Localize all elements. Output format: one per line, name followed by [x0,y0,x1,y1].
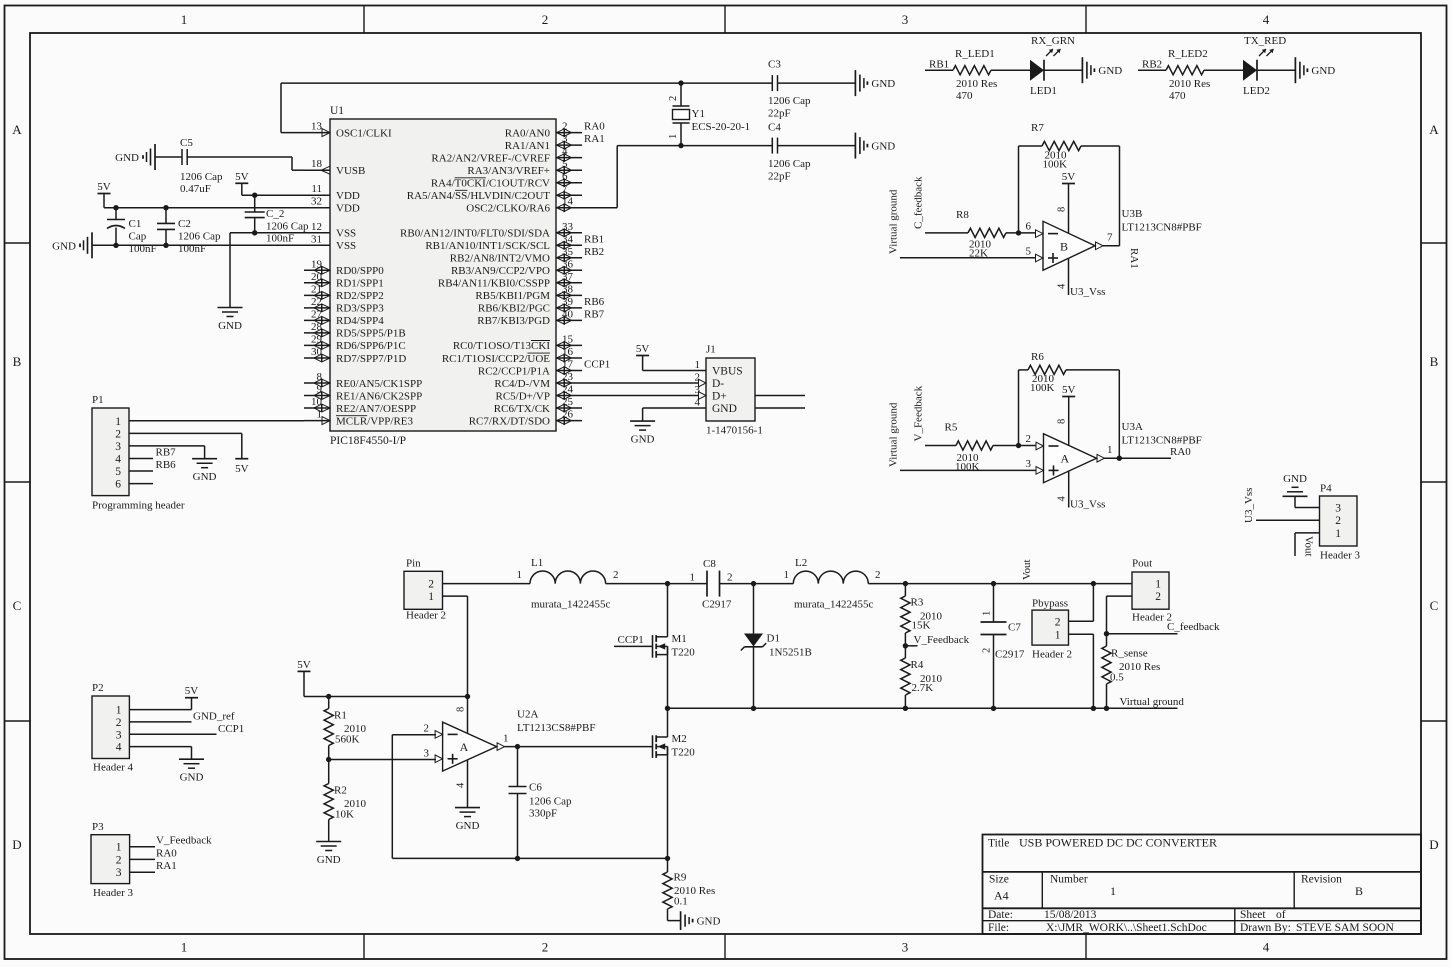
U1 pin 18 VUSB [304,169,330,171]
capacitor C5 [181,149,183,165]
connector P2 Header 4 [92,696,129,759]
svg-text:RB2/AN8/INT2/VMO: RB2/AN8/INT2/VMO [450,253,550,265]
svg-text:2010 Res: 2010 Res [956,78,997,90]
resistor R4 [904,646,906,658]
resistor R9 [667,858,669,872]
U1 pin 31 VSS [304,244,330,246]
wire Pbypass pin 1 to bottom rail [1069,633,1094,635]
svg-text:RD1/SPP1: RD1/SPP1 [336,278,384,290]
wire P1 pin 6 [129,483,153,485]
U3B pin 8 power 5V [1062,183,1075,185]
U1 pin 9 RE1/AN6/CK2SPP [304,395,330,397]
svg-text:2: 2 [428,578,434,590]
U1 pin 10 RE2/AN7/OESPP [304,407,330,409]
wire LED1 to ground [1044,69,1082,71]
svg-text:1: 1 [668,134,679,139]
resistor R_sense [1106,634,1108,646]
op-amp U2A LT1213CS8#PBF [443,722,497,771]
svg-text:3: 3 [424,748,430,760]
U1 pin 24 RC5/D+/VP [556,395,582,397]
svg-text:GND: GND [115,152,139,164]
svg-text:RD6/SPP6/P1C: RD6/SPP6/P1C [336,340,406,352]
svg-text:A: A [1061,452,1070,466]
connector P1 programming header [92,408,129,496]
wire P3 pin 1 [130,846,155,848]
wire Pbypass pin 2 to Vout rail [1069,620,1094,622]
svg-text:TX_RED: TX_RED [1244,35,1286,47]
svg-text:6: 6 [115,479,121,491]
wire R8 to U3B pin 6 [1006,232,1036,234]
ground for J1 [630,420,655,422]
svg-text:A: A [12,122,22,137]
junction [751,706,756,711]
resistor R_LED2 [1166,66,1204,75]
U1 pin 12 VSS [304,232,330,234]
svg-text:GND: GND [180,772,204,784]
svg-text:R8: R8 [956,209,969,221]
svg-text:RC5/D+/VP: RC5/D+/VP [496,390,551,402]
wire P2 pin 4 to ground [129,746,191,748]
svg-text:C8: C8 [703,558,716,570]
svg-text:LT1213CS8#PBF: LT1213CS8#PBF [517,722,595,734]
U1 pin 20 RD1/SPP1 [304,282,330,284]
svg-text:murata_1422455c: murata_1422455c [531,599,611,611]
wire RB1 [925,69,953,71]
svg-text:RB2: RB2 [1142,58,1162,70]
svg-text:1: 1 [428,591,434,603]
title block [983,835,1422,935]
svg-text:RA1: RA1 [1128,248,1140,269]
svg-text:RD5/SPP5/P1B: RD5/SPP5/P1B [336,328,406,340]
svg-text:470: 470 [1169,90,1186,102]
J1 pin 2 arrow [699,379,707,387]
U1 pin 25 RC6/TX/CK [556,407,582,409]
U1 pin 22 RD3/SPP3 [304,307,330,309]
svg-text:2: 2 [116,854,122,866]
svg-text:P2: P2 [92,682,104,694]
svg-text:1: 1 [115,416,121,428]
svg-text:31: 31 [311,233,322,245]
svg-text:RA0: RA0 [584,121,605,133]
svg-text:15K: 15K [912,620,931,632]
svg-text:RA5/AN4/SS/HLVDIN/C2OUT: RA5/AN4/SS/HLVDIN/C2OUT [407,190,551,202]
svg-text:GND: GND [871,141,895,153]
svg-text:RB7: RB7 [156,447,177,459]
svg-text:Vout: Vout [1021,559,1033,580]
svg-text:PIC18F4550-I/P: PIC18F4550-I/P [330,435,406,447]
U1 pin 26 RC7/RX/DT/SDO [556,420,582,422]
svg-text:RD0/SPP0: RD0/SPP0 [336,265,384,277]
svg-text:MCLR/VPP/RE3: MCLR/VPP/RE3 [336,415,414,427]
svg-text:Header 2: Header 2 [406,610,446,622]
wire P1 pin 4 RB7 [129,458,153,460]
svg-text:R2: R2 [334,785,347,797]
junction [665,581,670,586]
svg-text:LED1: LED1 [1030,85,1057,97]
svg-text:Pout: Pout [1132,558,1152,570]
wire P3 pin 2 [130,858,155,860]
svg-text:RC1/T1OSI/CCP2/UOE: RC1/T1OSI/CCP2/UOE [442,353,550,365]
junction [1016,230,1021,235]
transistor M1 T220 [652,635,654,658]
svg-text:VDD: VDD [336,203,360,215]
J1 pin 3 arrow [699,392,707,400]
svg-text:1206 Cap: 1206 Cap [768,95,811,107]
svg-text:VSS: VSS [336,228,356,240]
svg-text:V_Feedback: V_Feedback [914,634,970,646]
svg-text:100nF: 100nF [266,233,294,245]
wire R1/R2 tap to U2A pin 3 [329,759,436,761]
resistor R6 feedback [1019,369,1029,371]
svg-text:5V: 5V [636,343,650,355]
U1 pin 2 RA0/AN0 [556,132,582,134]
wire Pout pin 2 to C_feedback node [1107,595,1133,597]
svg-text:1: 1 [1055,629,1061,641]
svg-text:GND: GND [52,240,76,252]
svg-text:100K: 100K [955,461,980,473]
svg-text:7: 7 [1107,232,1113,244]
svg-text:RA4/T0CKI/C1OUT/RCV: RA4/T0CKI/C1OUT/RCV [431,178,550,190]
svg-text:1: 1 [181,940,188,955]
svg-text:2: 2 [1155,591,1161,603]
svg-text:LT1213CN8#PBF: LT1213CN8#PBF [1122,435,1202,447]
wire 5V to J1 pin 1 [643,370,706,372]
power 5V for U2A [298,670,311,672]
svg-text:C_2: C_2 [266,208,284,220]
U1 pin 17 RC2/CCP1/P1A [556,370,582,372]
svg-text:5: 5 [1026,246,1032,258]
junction [252,230,257,235]
wire P1 pin 2 to 5V [129,432,242,434]
svg-text:RC6/TX/CK: RC6/TX/CK [494,403,550,415]
ground for P1 [192,458,217,460]
wire P3 pin 3 [130,871,155,873]
wire LED2 to ground [1257,69,1295,71]
svg-text:R_sense: R_sense [1111,648,1148,660]
wire to VDD pin 11 [242,194,304,196]
svg-text:CCP1: CCP1 [618,634,644,646]
U1 pin 15 RC0/T1OSO/T13CKI [556,344,582,346]
wire D+ from U1 pin 24 [582,395,698,397]
svg-text:C2917: C2917 [995,649,1025,661]
svg-text:RA2/AN2/VREF-/CVREF: RA2/AN2/VREF-/CVREF [431,152,550,164]
svg-text:Virtual ground: Virtual ground [888,402,900,467]
svg-text:P4: P4 [1320,483,1332,495]
svg-text:2: 2 [115,428,121,440]
svg-text:P3: P3 [92,821,104,833]
wire R8 input [925,232,968,234]
svg-text:12: 12 [311,221,322,233]
svg-text:GND: GND [456,820,480,832]
LED LED2 [1243,60,1257,81]
svg-text:M2: M2 [672,733,687,745]
capacitor C4 [681,145,772,147]
svg-text:GND: GND [1098,65,1122,77]
svg-text:T220: T220 [672,647,696,659]
wire U2A pin 2 feedback [392,734,436,736]
svg-text:3: 3 [115,441,121,453]
svg-text:2: 2 [668,96,679,101]
resistor R8 [968,228,1006,237]
svg-text:1-1470156-1: 1-1470156-1 [706,425,763,437]
svg-text:R7: R7 [1031,122,1044,134]
svg-text:Number: Number [1050,874,1088,886]
svg-text:ECS-20-20-1: ECS-20-20-1 [692,121,751,133]
U1 pin 23 RC4/D-/VM [556,382,582,384]
svg-text:Y1: Y1 [692,108,705,120]
power 5V for J1 [636,355,649,357]
svg-text:13: 13 [311,121,323,133]
svg-text:Programming header: Programming header [92,500,185,512]
svg-text:R1: R1 [334,710,347,722]
svg-text:2.7K: 2.7K [912,682,934,694]
svg-text:GND: GND [193,471,217,483]
wire P1 pin 1 to U1 MCLR [129,420,304,422]
svg-text:2: 2 [1026,433,1032,445]
svg-text:RD2/SPP2: RD2/SPP2 [336,290,384,302]
junction [903,706,908,711]
svg-text:RB5/KBI1/PGM: RB5/KBI1/PGM [475,290,550,302]
J1 shield stub 1 [755,395,805,397]
ground for R9 [680,911,682,930]
svg-text:3: 3 [902,940,909,955]
svg-text:3: 3 [902,12,909,27]
U1 pin 11 VDD [304,194,330,196]
svg-text:RE1/AN6/CK2SPP: RE1/AN6/CK2SPP [336,390,422,402]
wire 5V rail to VDD pin 32 [104,207,304,209]
junction [465,694,470,699]
wire M1 drain [667,584,669,637]
svg-text:J1: J1 [706,344,716,356]
U3B output wire pin 7 RA1 [1103,245,1120,247]
svg-text:CCP1: CCP1 [218,723,244,735]
wire converter bottom rail [668,707,1178,709]
svg-text:100K: 100K [1043,159,1068,171]
U1 pin 4 RA2/AN2/VREF-/CVREF [556,157,582,159]
svg-text:C1: C1 [129,218,142,230]
LED LED2 emission arrows [1259,49,1266,56]
ground for VSS rail [91,232,93,258]
J1 shield stub 2 [755,407,805,409]
svg-text:1: 1 [503,733,509,745]
svg-text:RA1: RA1 [156,860,177,872]
svg-text:RB6: RB6 [156,459,177,471]
wire OSC1 pin 13 to crystal [281,132,304,134]
U1 pin 14 OSC2/CLKO/RA6 [556,207,582,209]
diode D1 1N5251B [753,584,755,634]
svg-text:OSC2/CLKO/RA6: OSC2/CLKO/RA6 [466,203,550,215]
svg-text:2: 2 [982,648,993,653]
op-amp U3A LT1213CN8#PBF [1044,434,1097,483]
svg-text:RD4/SPP4: RD4/SPP4 [336,315,384,327]
svg-text:8: 8 [456,707,467,712]
connector P4 Header 3 [1320,496,1358,546]
svg-text:RB4/AN11/KBI0/CSSPP: RB4/AN11/KBI0/CSSPP [438,278,550,290]
wire P4 pin 1 Vout [1295,532,1320,534]
svg-text:1: 1 [517,569,523,581]
svg-text:GND: GND [317,854,341,866]
svg-text:Pbypass: Pbypass [1032,598,1068,610]
U3A output wire pin 1 RA0 [1104,457,1171,459]
svg-text:B: B [13,354,22,369]
svg-text:1206 Cap: 1206 Cap [180,171,223,183]
U1 pin 13 OSC1/CLKI [304,132,330,134]
svg-text:USB POWERED DC DC CONVERTER: USB POWERED DC DC CONVERTER [1019,836,1217,850]
svg-text:STEVE SAM SOON: STEVE SAM SOON [1296,922,1394,934]
capacitor C3 [681,82,772,84]
svg-text:GND_ref: GND_ref [193,710,235,722]
U1 pin 1 MCLR/VPP/RE3 [304,420,330,422]
capacitor C1 [115,208,117,220]
junction [903,581,908,586]
svg-text:5V: 5V [235,463,249,475]
U1 PIC18F4550-I/P body [330,119,556,431]
wire VSS pin 12 to ground [230,232,304,234]
svg-text:1: 1 [1155,579,1161,591]
capacitor C2 [165,208,167,224]
junction [678,143,683,148]
ground below U2A [455,807,480,809]
svg-text:330pF: 330pF [529,808,557,820]
svg-text:22pF: 22pF [768,171,791,183]
wire P4 pin 3 to ground [1295,507,1320,509]
svg-text:B: B [1060,239,1068,253]
U1 pin 38 RB5/KBI1/PGM [556,294,582,296]
svg-text:LED2: LED2 [1243,85,1270,97]
svg-text:1: 1 [695,359,701,371]
resistor R_LED1 [953,66,991,75]
svg-text:RE2/AN7/OESPP: RE2/AN7/OESPP [336,403,416,415]
wire CCP1 to M1 gate [614,645,653,647]
ground for C3 [854,70,856,96]
svg-text:VDD: VDD [336,190,360,202]
svg-text:5: 5 [115,466,121,478]
capacitor C7 C2917 [993,584,995,622]
ground above P4 [1283,495,1308,497]
svg-text:GND: GND [871,78,895,90]
U1 pin 33 RB0/AN12/INT0/FLT0/SDI/SDA [556,232,582,234]
svg-text:1: 1 [1335,528,1341,540]
svg-text:0.5: 0.5 [1110,672,1124,684]
U1 pin 8 RE0/AN5/CK1SPP [304,382,330,384]
junction [326,757,331,762]
svg-text:Header 4: Header 4 [93,762,134,774]
ground for C4 [854,133,856,159]
svg-text:L2: L2 [795,557,807,569]
svg-text:GND: GND [631,434,655,446]
svg-text:5V: 5V [1062,171,1076,183]
U1 pin 27 RD4/SPP4 [304,319,330,321]
U1 pin 36 RB3/AN9/CCP2/VPO [556,269,582,271]
capacitor C8 C2917 [706,571,708,597]
connector P3 Header 3 [91,835,130,884]
svg-text:RB7: RB7 [584,308,605,320]
svg-text:1N5251B: 1N5251B [769,647,812,659]
svg-text:C6: C6 [529,782,542,794]
power 5V for C_2 [235,182,248,184]
U1 pin 3 RA1/AN1 [556,144,582,146]
svg-text:Header 3: Header 3 [93,887,134,899]
svg-text:D: D [1429,837,1438,852]
svg-text:4: 4 [456,782,467,788]
svg-text:U1: U1 [330,105,344,117]
svg-text:R9: R9 [674,872,687,884]
svg-text:Sheet: Sheet [1240,909,1266,921]
svg-text:RA0: RA0 [156,847,177,859]
svg-text:C4: C4 [768,122,781,134]
junction [665,706,670,711]
wire L1 to C8 [606,583,707,585]
svg-text:RB1: RB1 [584,233,604,245]
svg-text:L1: L1 [531,557,543,569]
wire D- from U1 pin 23 [582,382,698,384]
wire P2 pin 1 to 5V [129,709,191,711]
junction [1016,443,1021,448]
U3A pin 8 power 5V [1062,396,1075,398]
svg-text:6: 6 [1026,221,1032,233]
junction [1091,706,1096,711]
wire to LED2 [1204,69,1243,71]
junction [326,694,331,699]
ground below R2 [316,841,341,843]
svg-text:X:\JMR_WORK\..\Sheet1.SchDoc: X:\JMR_WORK\..\Sheet1.SchDoc [1046,922,1207,934]
svg-text:VSS: VSS [336,240,356,252]
svg-text:RB1/AN10/INT1/SCK/SCL: RB1/AN10/INT1/SCK/SCL [425,240,550,252]
ground for C5 [154,144,156,170]
svg-text:2: 2 [1335,515,1341,527]
wire P1 pin 3 to ground [129,445,205,447]
U1 pin 28 RD5/SPP5/P1B [304,332,330,334]
junction [1117,456,1122,461]
svg-text:Header 2: Header 2 [1132,612,1172,624]
svg-text:100K: 100K [1030,382,1055,394]
LED LED1 [1030,60,1044,81]
svg-text:1206 Cap: 1206 Cap [768,158,811,170]
wire P2 pin 2 GND_ref [129,721,191,723]
svg-text:murata_1422455c: murata_1422455c [794,599,874,611]
svg-text:D: D [12,837,21,852]
capacitor C6 [517,747,519,787]
svg-text:RX_GRN: RX_GRN [1031,35,1075,47]
svg-text:1: 1 [784,569,790,581]
svg-text:P1: P1 [92,394,104,406]
wire Pin pin1 to 5V rail [443,595,468,597]
wire P2 pin 3 CCP1 [129,733,216,735]
svg-text:RB7/KBI3/PGD: RB7/KBI3/PGD [477,315,550,327]
svg-text:RC2/CCP1/P1A: RC2/CCP1/P1A [478,365,550,377]
svg-text:R6: R6 [1031,351,1044,363]
capacitor C_2 [254,195,256,212]
svg-text:R_LED1: R_LED1 [955,48,995,60]
svg-text:C3: C3 [768,59,781,71]
resistor R7 feedback [1019,145,1043,147]
svg-text:3: 3 [1335,503,1341,515]
svg-text:C: C [13,598,22,613]
svg-text:Virtual ground: Virtual ground [1120,696,1185,708]
junction [991,581,996,586]
svg-text:Cap: Cap [129,231,147,243]
U1 pin 21 RD2/SPP2 [304,294,330,296]
wire C8 to L2 [720,583,794,585]
svg-text:3: 3 [1026,458,1032,470]
svg-text:RB0/AN12/INT0/FLT0/SDI/SDA: RB0/AN12/INT0/FLT0/SDI/SDA [400,228,550,240]
svg-text:1: 1 [982,611,993,616]
power 5V below P1 [235,458,248,460]
wire L2 to Pout [868,583,1132,585]
wire V_Feedback stub [905,645,917,647]
svg-text:RC4/D-/VM: RC4/D-/VM [494,378,550,390]
svg-text:1: 1 [690,572,696,584]
